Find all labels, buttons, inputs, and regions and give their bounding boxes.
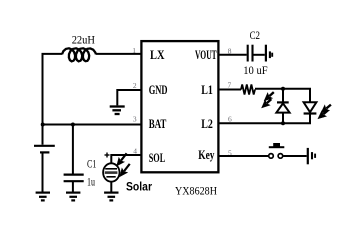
svg-text:SOL: SOL: [149, 151, 166, 165]
solar light arrow 2: [117, 162, 132, 179]
value label 1u: [87, 176, 95, 188]
junction node at C1 branch: [71, 123, 75, 127]
svg-text:C1: C1: [87, 159, 97, 171]
wire resistor to LED bridge top: [255, 89, 310, 102]
svg-text:BAT: BAT: [149, 117, 167, 131]
wire pin2 GND to ground: [117, 90, 141, 105]
pin number 1: [132, 46, 136, 55]
wire switch to ground: [283, 155, 307, 157]
pin label VOUT: [195, 48, 217, 62]
wire pin5 Key to switch: [218, 155, 269, 157]
svg-text:Key: Key: [198, 148, 215, 162]
LED D1 (left, cathode up): [276, 89, 289, 123]
svg-text:LX: LX: [150, 48, 165, 62]
svg-text:L1: L1: [201, 83, 213, 97]
junction node top of LED D1: [281, 87, 285, 91]
svg-text:4: 4: [133, 146, 137, 155]
pin number 7: [228, 80, 232, 89]
wire pin8 VOUT to C2: [218, 54, 247, 56]
svg-text:10 uF: 10 uF: [243, 65, 268, 77]
ground G2 for C1: [66, 193, 80, 201]
LED D1 light arrow 1: [262, 89, 276, 103]
label Solar: [126, 182, 152, 194]
pin label L2: [201, 117, 213, 131]
pin label SOL: [149, 151, 166, 165]
pin number 5: [228, 148, 232, 157]
pin label L1: [201, 83, 213, 97]
svg-text:VOUT: VOUT: [195, 48, 217, 62]
wire C2 to ground: [254, 54, 265, 56]
svg-text:6: 6: [228, 114, 232, 123]
ground G4 for solar: [104, 193, 118, 201]
value label 10 uF: [243, 65, 268, 77]
svg-text:22uH: 22uH: [72, 35, 95, 47]
wire pin3 BAT horizontal: [42, 124, 142, 126]
capacitor C2: [248, 45, 253, 62]
svg-text:C2: C2: [250, 30, 261, 42]
ground G1 battery: [36, 193, 50, 201]
svg-text:2: 2: [133, 81, 137, 90]
pin number 3: [133, 114, 137, 123]
value label 22uH: [72, 35, 95, 47]
wire pin6 L2 to LED bridge bottom: [218, 114, 310, 124]
svg-text:1u: 1u: [87, 176, 95, 188]
junction node bottom of LED D1: [281, 121, 285, 125]
LED D2 (right, cathode down): [304, 102, 317, 113]
ground G5 sideways at C2: [266, 45, 272, 62]
svg-text:L2: L2: [201, 117, 213, 131]
pin number 6: [228, 114, 232, 123]
label C1: [87, 159, 97, 171]
LED D2 light arrow 2: [316, 108, 331, 122]
resistor R1: [241, 85, 255, 95]
wire pin1 LX to inductor: [96, 53, 141, 55]
solar light arrow 1: [114, 151, 129, 168]
svg-text:YX8628H: YX8628H: [175, 185, 217, 197]
wire left rail from inductor down to BAT wire: [42, 54, 44, 125]
svg-text:3: 3: [133, 114, 137, 123]
ground G3 at pin2: [110, 107, 125, 115]
pin label GND: [149, 83, 168, 97]
label C2: [250, 30, 261, 42]
svg-text:7: 7: [228, 80, 232, 89]
IC name label YX8628H: [175, 185, 217, 197]
pin number 4: [133, 146, 137, 155]
LED D2 light arrow 1: [319, 102, 334, 116]
pin label BAT: [149, 117, 167, 131]
pin number 8: [228, 47, 232, 56]
pin label LX: [150, 48, 165, 62]
solar cell PV1: [103, 153, 141, 192]
pin number 2: [133, 81, 137, 90]
LED D1 light arrow 2: [259, 96, 273, 110]
junction node at left rail: [41, 123, 45, 127]
op-amp U1 YX8628H IC body: [141, 41, 218, 172]
battery BT1: [34, 125, 55, 192]
pin label Key: [198, 148, 215, 162]
inductor L1 left lead wire: [42, 53, 63, 55]
capacitor C1: [64, 125, 84, 192]
inductor L1 coil: [62, 48, 96, 61]
svg-text:GND: GND: [149, 83, 168, 97]
switch S1 push button: [269, 143, 285, 158]
svg-text:Solar: Solar: [126, 182, 152, 194]
wire pin7 L1 to resistor: [218, 89, 241, 91]
ground G6 sideways at switch: [308, 148, 315, 164]
